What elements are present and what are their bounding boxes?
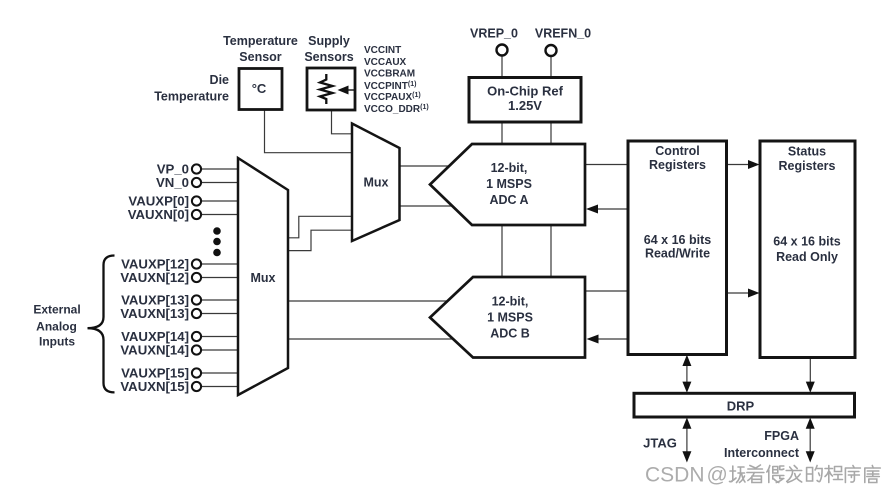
svg-text:ADC B: ADC B [490, 327, 530, 341]
svg-text:Interconnect: Interconnect [724, 446, 800, 460]
svg-text:Temperature: Temperature [223, 34, 298, 48]
svg-text:Registers: Registers [649, 158, 706, 172]
svg-text:On-Chip Ref: On-Chip Ref [487, 84, 563, 99]
svg-text:VCCAUX: VCCAUX [364, 57, 407, 68]
svg-text:°C: °C [252, 81, 267, 96]
svg-text:Mux: Mux [364, 176, 389, 190]
svg-text:VCCBRAM: VCCBRAM [364, 69, 415, 80]
svg-text:Control: Control [655, 144, 699, 158]
svg-text:64 x 16 bits: 64 x 16 bits [644, 233, 711, 247]
svg-text:Registers: Registers [779, 159, 836, 173]
svg-text:VAUXN[13]: VAUXN[13] [120, 306, 189, 321]
svg-text:VREFN_0: VREFN_0 [535, 27, 591, 41]
svg-text:Inputs: Inputs [39, 335, 75, 349]
svg-text:VAUXN[14]: VAUXN[14] [120, 342, 189, 357]
svg-text:Die: Die [210, 73, 230, 87]
svg-text:VCCPAUX(1): VCCPAUX(1) [364, 92, 421, 103]
svg-text:VAUXN[0]: VAUXN[0] [128, 207, 189, 222]
svg-text:VCCO_DDR(1): VCCO_DDR(1) [364, 104, 429, 115]
svg-text:FPGA: FPGA [764, 429, 799, 443]
svg-text:VN_0: VN_0 [156, 175, 189, 190]
svg-text:Supply: Supply [308, 34, 350, 48]
svg-text:12-bit,: 12-bit, [492, 295, 529, 309]
svg-text:VAUXN[12]: VAUXN[12] [120, 270, 189, 285]
svg-text:VAUXN[15]: VAUXN[15] [120, 379, 189, 394]
svg-text:JTAG: JTAG [643, 436, 677, 451]
svg-text:64 x 16 bits: 64 x 16 bits [773, 235, 840, 249]
svg-text:Temperature: Temperature [154, 90, 229, 104]
svg-text:1 MSPS: 1 MSPS [487, 311, 533, 325]
svg-text:Status: Status [788, 145, 826, 159]
svg-text:12-bit,: 12-bit, [491, 161, 528, 175]
svg-text:Analog: Analog [36, 320, 77, 334]
svg-text:1.25V: 1.25V [508, 98, 542, 113]
svg-text:External: External [33, 302, 80, 316]
svg-text:Read Only: Read Only [776, 250, 838, 264]
svg-text:Sensors: Sensors [304, 50, 353, 64]
svg-text:ADC A: ADC A [489, 193, 528, 207]
svg-text:DRP: DRP [727, 399, 755, 414]
svg-text:1 MSPS: 1 MSPS [486, 177, 532, 191]
svg-text:Sensor: Sensor [239, 50, 282, 64]
svg-text:VREP_0: VREP_0 [470, 27, 518, 41]
svg-text:Read/Write: Read/Write [645, 247, 710, 261]
svg-text:Mux: Mux [251, 271, 276, 285]
svg-text:VCCPINT(1): VCCPINT(1) [364, 81, 416, 92]
svg-text:VCCINT: VCCINT [364, 45, 401, 56]
